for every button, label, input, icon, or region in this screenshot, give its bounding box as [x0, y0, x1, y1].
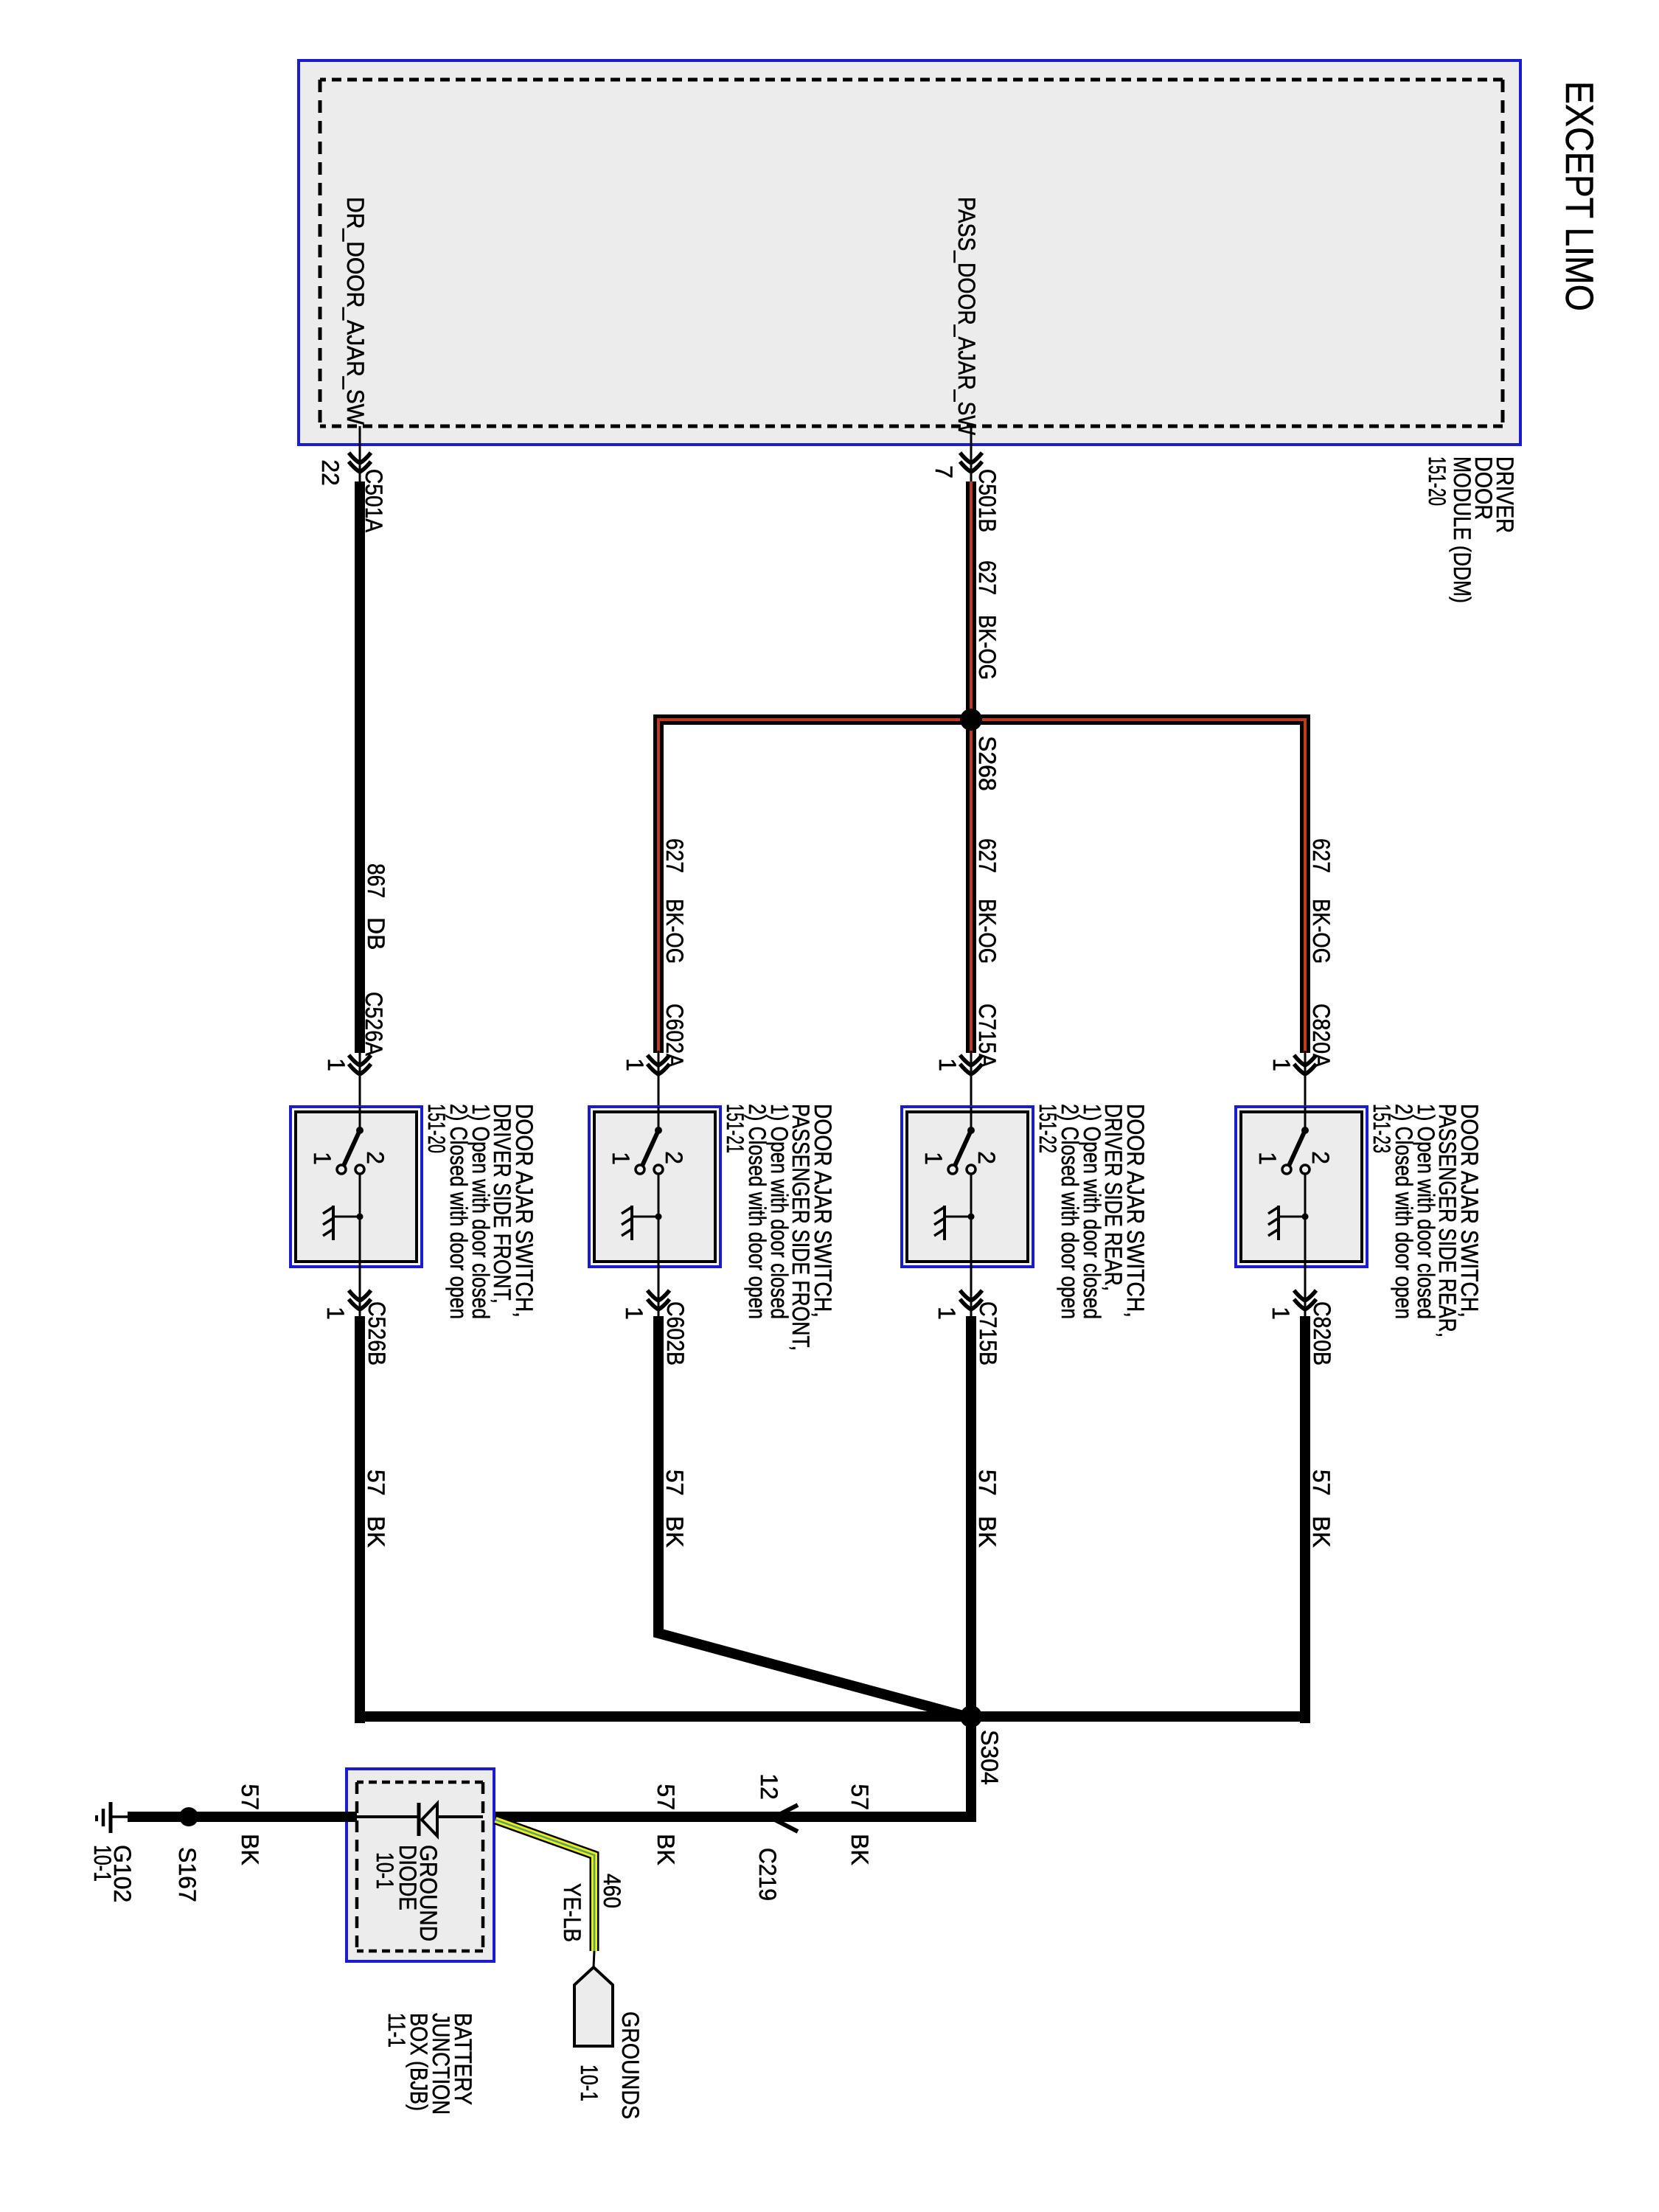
wire 57 BK diagonal to S304 [658, 1316, 966, 1717]
svg-text:1: 1 [920, 1152, 947, 1165]
wire 57 BK down to ground diode [483, 1812, 971, 1822]
svg-text:1: 1 [1267, 1307, 1294, 1320]
wire lead into switch (C715A) [970, 1051, 973, 1107]
connector arrow C715A [960, 1055, 982, 1065]
svg-text:GROUNDS: GROUNDS [617, 2011, 644, 2119]
ground symbol inside door ajar switch driver rear [945, 1216, 971, 1218]
splice S268 [960, 709, 982, 731]
switch box door ajar switch driver rear [902, 1107, 1033, 1267]
ground diode dashed border [481, 1782, 485, 1951]
ground symbol inside door ajar switch driver front [333, 1216, 360, 1218]
svg-text:C219: C219 [754, 1848, 781, 1901]
connector arrow C526A [349, 1055, 371, 1065]
svg-text:1: 1 [622, 1058, 648, 1071]
svg-text:2: 2 [1307, 1151, 1334, 1164]
svg-text:PASS_DOOR_AJAR_SW: PASS_DOOR_AJAR_SW [953, 197, 980, 436]
switch box door ajar switch passenger rear [1236, 1107, 1367, 1267]
svg-text:1: 1 [934, 1058, 961, 1071]
svg-text:BK-OG: BK-OG [661, 899, 688, 964]
wire lead out of switch 4 [1304, 1262, 1307, 1319]
splice S167 [179, 1807, 198, 1826]
svg-text:151-22: 151-22 [1034, 1104, 1061, 1153]
wire 627 BK-OG to C715A [966, 481, 976, 1053]
ground symbol G102 [109, 1802, 113, 1833]
wire 57 BK from C715B [966, 1316, 976, 1822]
svg-text:57: 57 [653, 1784, 679, 1810]
svg-text:2: 2 [973, 1151, 1000, 1164]
wire lead to GROUNDS [594, 1951, 594, 1967]
wire 867 DB [355, 481, 365, 1053]
wire 627 BK-OG bus to front/rear switches [658, 720, 1305, 1053]
connector arrow C602A [647, 1055, 669, 1065]
svg-text:YE-LB: YE-LB [559, 1883, 585, 1942]
svg-text:151-23: 151-23 [1368, 1104, 1395, 1153]
svg-text:C820B: C820B [1309, 1301, 1335, 1366]
svg-text:1: 1 [621, 1307, 647, 1320]
module dashed border [1501, 80, 1505, 426]
diode lead 2 [357, 1815, 419, 1818]
switch symbol door ajar switch passenger rear [1304, 1107, 1307, 1130]
svg-text:460: 460 [599, 1874, 625, 1908]
wire 460 YE-LB [495, 1820, 594, 1951]
svg-text:1: 1 [1254, 1152, 1281, 1165]
connector arrow C820A [1294, 1055, 1316, 1065]
svg-text:BK: BK [974, 1516, 1001, 1548]
module box Driver Door Module (DDM) [299, 60, 1520, 445]
switch box door ajar switch driver front [291, 1107, 422, 1267]
svg-text:BK-OG: BK-OG [974, 899, 1001, 964]
svg-text:C501B: C501B [974, 469, 1001, 532]
svg-text:867: 867 [363, 863, 389, 898]
ground symbol inside door ajar switch passenger front [632, 1216, 658, 1218]
switch box door ajar switch passenger front [589, 1107, 720, 1267]
svg-text:2: 2 [661, 1151, 687, 1164]
svg-text:7: 7 [931, 465, 957, 479]
connector arrow C501A [349, 453, 371, 463]
diode cathode bar [417, 1803, 421, 1836]
svg-text:1: 1 [933, 1307, 960, 1320]
svg-text:DIODE: DIODE [394, 1845, 421, 1910]
svg-text:DB: DB [363, 917, 389, 950]
wire 57 BK from C820B [1300, 1316, 1310, 1723]
ground diode box [347, 1769, 494, 1961]
svg-text:S167: S167 [174, 1847, 201, 1902]
wire lead into switch (C820A) [1304, 1051, 1307, 1107]
svg-text:11-1: 11-1 [383, 2013, 410, 2048]
wire lead into switch 1 [359, 1051, 361, 1107]
svg-text:BK-OG: BK-OG [974, 615, 1001, 680]
wire 57 BK to G102 [128, 1812, 357, 1822]
svg-text:57: 57 [237, 1784, 263, 1810]
wire lead out of switch 1 [359, 1262, 361, 1319]
svg-text:2: 2 [362, 1151, 389, 1164]
svg-text:BK-OG: BK-OG [1308, 899, 1335, 964]
connector arrow C602B [647, 1290, 669, 1301]
svg-text:57: 57 [846, 1784, 873, 1810]
diode lead [437, 1815, 483, 1818]
svg-text:BK: BK [237, 1834, 263, 1865]
svg-text:57: 57 [1308, 1470, 1335, 1496]
switch symbol door ajar switch driver rear [970, 1107, 973, 1130]
svg-text:10-1: 10-1 [372, 1852, 398, 1889]
svg-text:C526A: C526A [361, 992, 387, 1057]
svg-text:627: 627 [974, 838, 1001, 873]
svg-text:BK: BK [363, 1516, 389, 1548]
svg-text:151-21: 151-21 [722, 1104, 748, 1153]
wire 57 BK from C526B [355, 1316, 365, 1723]
svg-text:BK: BK [1308, 1516, 1335, 1548]
svg-text:C715B: C715B [975, 1301, 1001, 1366]
connector arrow C715B [960, 1290, 982, 1301]
svg-text:627: 627 [1308, 838, 1335, 873]
wire lead DDM pin 7 [970, 426, 973, 481]
svg-text:12: 12 [756, 1773, 782, 1800]
off-page connector GROUNDS [574, 1967, 613, 2046]
svg-text:22: 22 [317, 459, 344, 486]
svg-text:C602B: C602B [662, 1301, 689, 1366]
svg-text:10-1: 10-1 [576, 2065, 602, 2101]
wire lead into switch (C602A) [658, 1051, 660, 1107]
svg-text:MODULE (DDM): MODULE (DDM) [1449, 456, 1475, 603]
connector arrow C526B [349, 1290, 371, 1301]
svg-text:627: 627 [974, 560, 1001, 595]
svg-text:1: 1 [322, 1307, 349, 1320]
connector arrow C820B [1294, 1290, 1316, 1301]
svg-text:151-20: 151-20 [1424, 456, 1450, 506]
svg-text:S304: S304 [976, 1730, 1003, 1785]
connector arrow C501B [960, 453, 982, 463]
svg-text:BK: BK [653, 1834, 679, 1865]
ground lead G102 [112, 1815, 128, 1818]
wire 57 BK collector [360, 1711, 1305, 1722]
svg-text:1: 1 [309, 1152, 335, 1165]
svg-text:C526B: C526B [364, 1301, 390, 1366]
svg-text:BK: BK [846, 1834, 873, 1865]
svg-text:S268: S268 [974, 736, 1001, 791]
svg-text:BK: BK [661, 1516, 688, 1548]
svg-text:57: 57 [974, 1470, 1001, 1496]
svg-text:1: 1 [608, 1152, 634, 1165]
splice S304 [960, 1705, 982, 1728]
wire lead out of switch 2 [658, 1262, 660, 1319]
svg-text:1: 1 [323, 1058, 349, 1071]
svg-text:EXCEPT LIMO: EXCEPT LIMO [1557, 81, 1601, 311]
svg-text:DR_DOOR_AJAR_SW: DR_DOOR_AJAR_SW [342, 197, 369, 425]
connector arrow C219 [772, 1805, 798, 1832]
svg-text:151-20: 151-20 [423, 1104, 450, 1153]
switch symbol door ajar switch driver front [359, 1107, 361, 1130]
svg-text:1: 1 [1268, 1058, 1295, 1071]
diode D1 [422, 1804, 437, 1836]
svg-text:57: 57 [363, 1470, 389, 1496]
ground symbol inside door ajar switch passenger rear [1279, 1216, 1305, 1218]
svg-text:57: 57 [661, 1470, 688, 1496]
svg-text:627: 627 [661, 838, 688, 873]
wire lead out of switch 3 [970, 1262, 973, 1319]
wire lead DDM pin 22 [359, 426, 361, 481]
switch symbol door ajar switch passenger front [658, 1107, 660, 1130]
svg-text:10-1: 10-1 [89, 1845, 116, 1882]
